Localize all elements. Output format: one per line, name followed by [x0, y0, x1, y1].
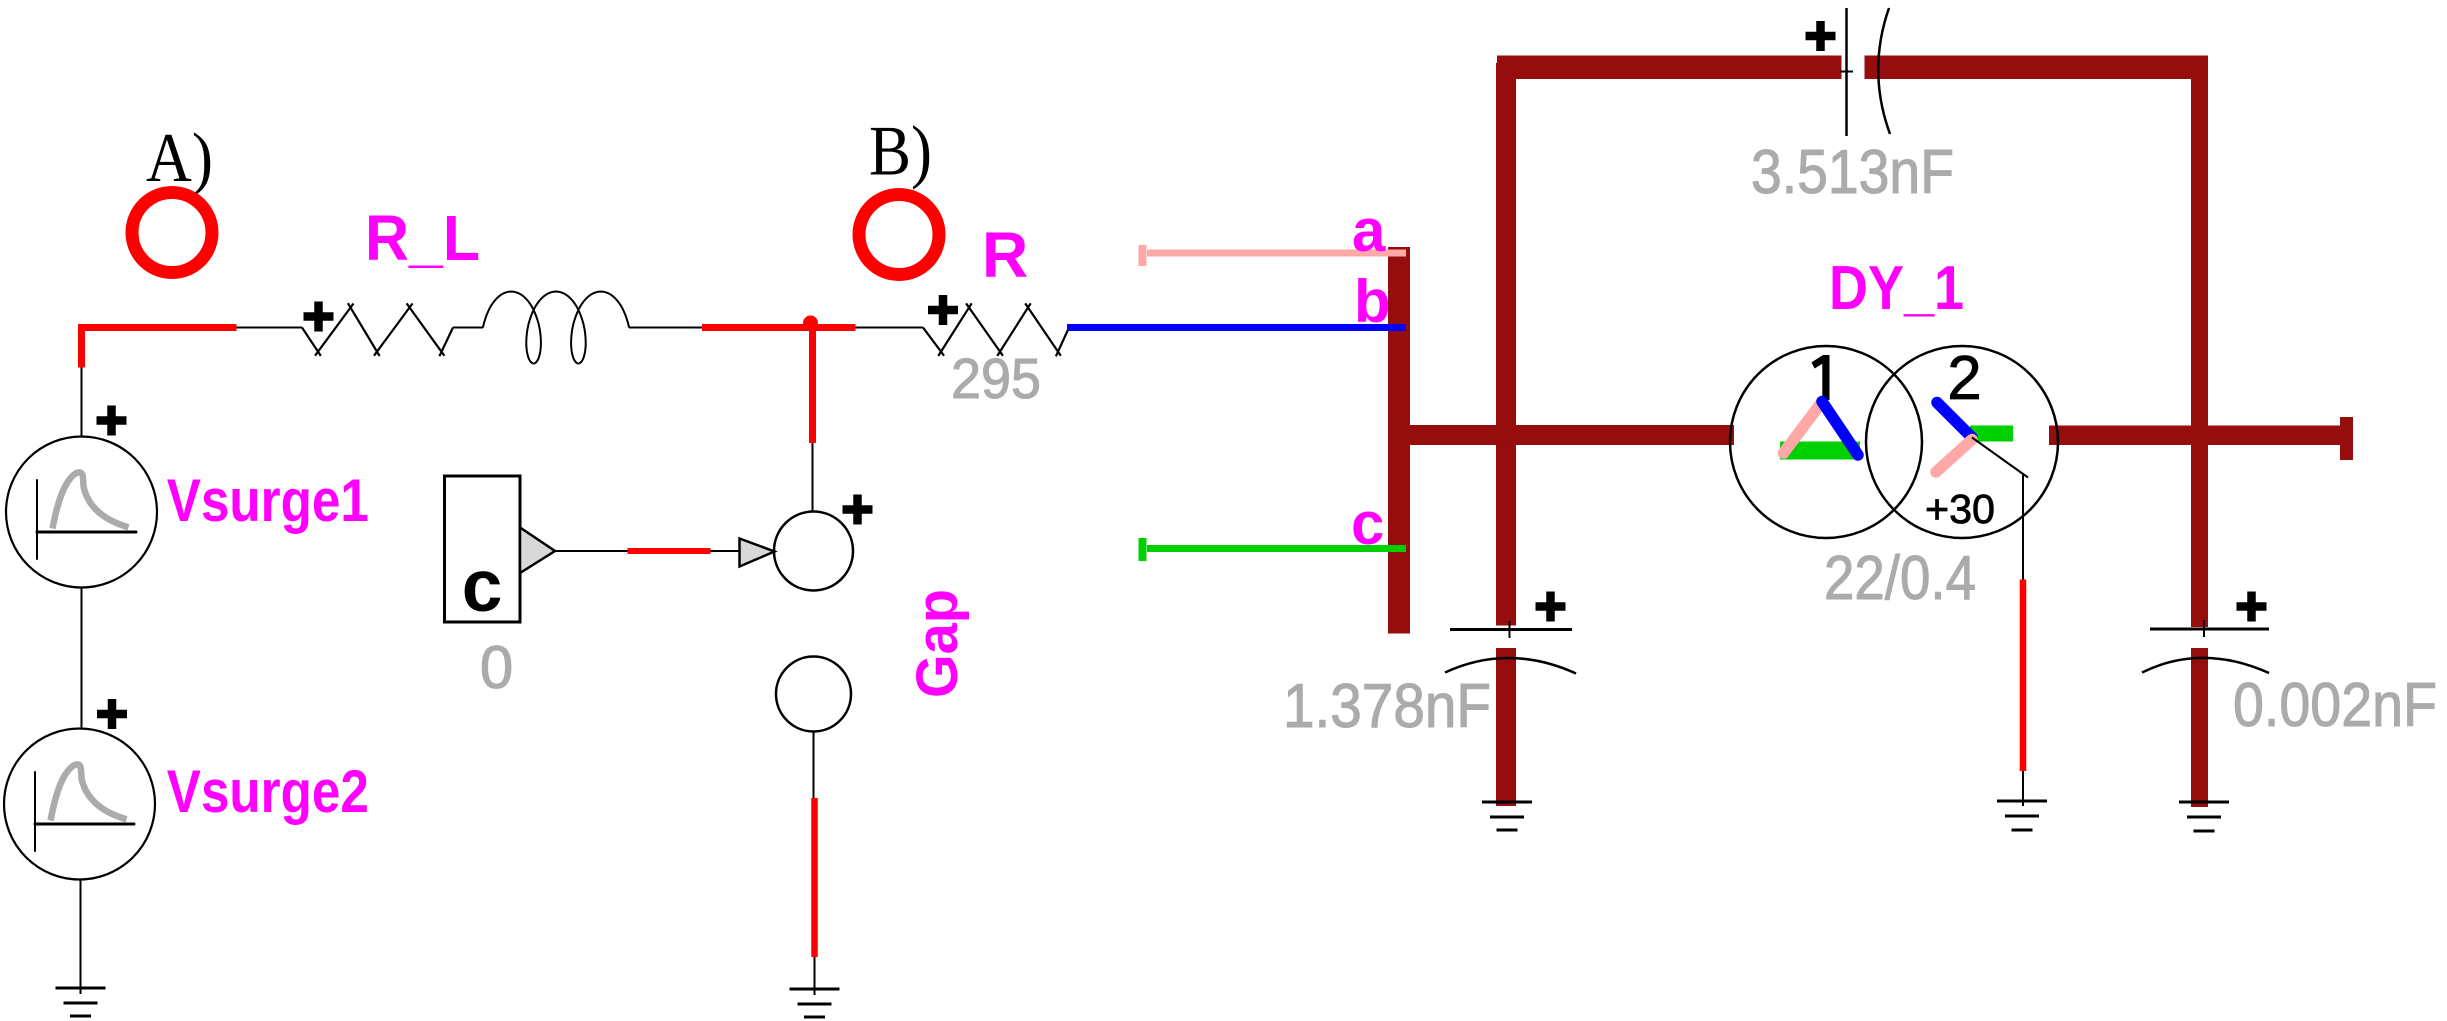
wire: [555, 550, 739, 552]
TACS input triangle: [740, 539, 775, 567]
TACS c box: [445, 476, 521, 622]
ground under 1.378nF: [1482, 802, 1532, 830]
bus: top loop left vertical: [1496, 63, 1516, 445]
red neutral wire segment: [2020, 580, 2027, 772]
bus: left phase bus bar: [1388, 247, 1410, 634]
plus 1.378nF: [1536, 592, 1566, 622]
plus R_L: [304, 302, 334, 332]
svg-text:c: c: [462, 546, 503, 627]
bus: top bar left: [1497, 56, 1842, 80]
voltage source Vsurge1: [6, 437, 157, 588]
plus R: [928, 295, 958, 325]
svg-text:R_L: R_L: [365, 202, 480, 274]
bus: mid arm to transformer: [1388, 425, 1734, 445]
wire red down to gap: [809, 328, 816, 444]
svg-text:R: R: [982, 219, 1028, 291]
svg-text:a: a: [1352, 197, 1386, 264]
svg-text:0.002nF: 0.002nF: [2233, 671, 2437, 740]
capacitor 1.378nF: [1450, 628, 1572, 631]
probe circle B: [859, 195, 939, 275]
ground under transformer neutral: [1997, 801, 2047, 830]
inductor L (coil): [483, 292, 629, 364]
svg-text:+30: +30: [1925, 486, 1995, 532]
neutral wire from wye: [1972, 438, 2028, 580]
svg-text:Vsurge1: Vsurge1: [167, 467, 369, 534]
svg-text:Vsurge2: Vsurge2: [167, 758, 369, 825]
junction dot: [803, 316, 818, 331]
capacitor 0.002nF: [2150, 628, 2269, 631]
wire: [813, 443, 815, 995]
wire red L-shape from source to R_L: [79, 324, 237, 368]
transformer primary circle: [1730, 346, 1922, 538]
plus 3.513nF: [1806, 21, 1836, 51]
phase wire a (pink): [1147, 250, 1406, 257]
ground under Vsurge2: [56, 988, 106, 1016]
svg-text:2: 2: [1947, 344, 1981, 413]
plus 0.002nF: [2237, 592, 2267, 622]
bus: arm right of transformer: [2049, 426, 2353, 446]
plus gap: [843, 495, 873, 525]
phase wire c (green): [1147, 545, 1406, 552]
bus: right end cap: [2340, 417, 2353, 460]
bus: 1.378 branch vertical: [1496, 445, 1516, 626]
voltage source Vsurge2: [4, 729, 155, 880]
wire: [81, 367, 82, 994]
wire red segment on control wire: [628, 548, 711, 554]
transformer secondary circle: [1866, 346, 2058, 538]
svg-text:A): A): [146, 120, 213, 197]
wire red below gap: [811, 798, 818, 957]
svg-text:DY_1: DY_1: [1829, 254, 1964, 323]
bus: right vertical: [2191, 56, 2208, 628]
svg-text:0: 0: [480, 634, 513, 701]
svg-text:B): B): [869, 113, 932, 191]
capacitor 3.513nF: [1845, 8, 1848, 136]
wye winding symbol: [1936, 403, 2013, 473]
ground under gap: [790, 989, 840, 1017]
resistor R: [923, 303, 1069, 356]
svg-text:295: 295: [951, 347, 1041, 411]
gap switch bottom circle: [776, 657, 851, 732]
gap switch top circle: [774, 512, 853, 591]
svg-text:1.378nF: 1.378nF: [1283, 672, 1491, 741]
svg-text:3.513nF: 3.513nF: [1751, 138, 1954, 207]
wire: [2022, 771, 2024, 806]
wire red segment after inductor: [702, 324, 856, 331]
plus Vsurge2: [97, 699, 127, 729]
TACS output triangle: [520, 528, 555, 574]
resistor R_L: [302, 303, 453, 356]
svg-text:b: b: [1354, 268, 1391, 335]
delta winding symbol: [1780, 402, 1860, 456]
svg-text:c: c: [1351, 490, 1384, 557]
plus Vsurge1: [97, 406, 127, 436]
wire: [237, 327, 924, 329]
svg-text:22/0.4: 22/0.4: [1824, 544, 1976, 613]
winding 1 number: [1812, 355, 1830, 400]
svg-text:Gap: Gap: [905, 589, 970, 698]
ground under 0.002nF: [2179, 802, 2229, 831]
probe circle A: [132, 193, 212, 273]
phase wire b (blue): [1067, 324, 1406, 331]
bus: top bar right: [1865, 56, 2209, 80]
